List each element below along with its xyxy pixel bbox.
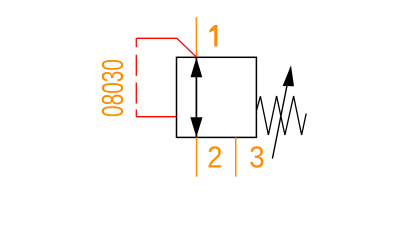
leader line top segment (red, solid)	[136, 38, 196, 57]
double-headed flow arrow shaft	[195, 58, 197, 137]
pin label 1	[209, 25, 217, 46]
adjustment arrow shaft (diagonal through spring)	[272, 68, 290, 159]
leader line bottom segment (red, solid)	[136, 116, 176, 118]
arrowhead down (inside box, bottom)	[190, 117, 202, 137]
adjustment arrowhead	[283, 65, 294, 86]
wire: port 2 line (orange, bottom left)	[196, 137, 198, 176]
svg-text:2: 2	[207, 139, 222, 174]
svg-text:3: 3	[249, 139, 264, 174]
leader line left segment (red, dashed)	[135, 38, 137, 116]
wire: port 1 line (orange, top)	[195, 17, 197, 57]
wire: port 3 line (orange, bottom right)	[235, 137, 237, 176]
valve body (square)	[177, 57, 257, 137]
spring (zigzag, right of valve body)	[257, 96, 307, 135]
arrowhead up (inside box, top)	[191, 58, 203, 78]
svg-text:08030: 08030	[95, 59, 130, 117]
